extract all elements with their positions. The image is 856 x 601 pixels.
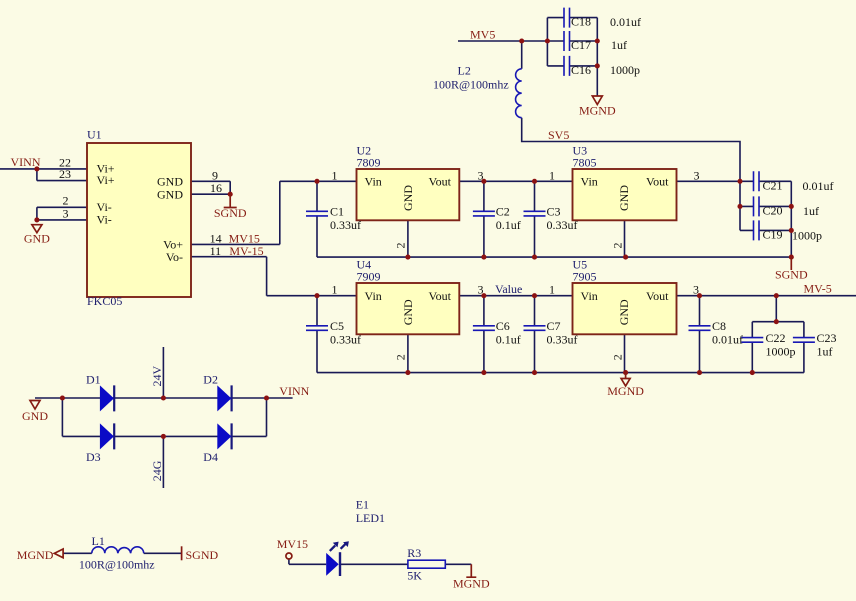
- svg-text:GND: GND: [401, 299, 415, 325]
- svg-text:C8: C8: [712, 319, 726, 333]
- svg-text:VINN: VINN: [279, 384, 309, 398]
- svg-text:D2: D2: [203, 373, 218, 387]
- svg-text:0.01uf: 0.01uf: [712, 332, 743, 346]
- svg-text:GND: GND: [157, 187, 183, 201]
- svg-text:LED1: LED1: [356, 511, 385, 525]
- svg-text:Vout: Vout: [646, 289, 669, 303]
- svg-text:23: 23: [59, 167, 71, 181]
- svg-text:24V: 24V: [150, 366, 164, 387]
- svg-text:16: 16: [210, 181, 222, 195]
- svg-text:C16: C16: [571, 63, 591, 77]
- svg-text:14: 14: [210, 231, 222, 245]
- svg-text:3: 3: [693, 283, 699, 297]
- svg-text:7909: 7909: [357, 270, 381, 284]
- svg-text:0.33uf: 0.33uf: [330, 218, 361, 232]
- svg-text:SGND: SGND: [186, 548, 219, 562]
- svg-text:3: 3: [478, 283, 484, 297]
- svg-text:D3: D3: [86, 450, 101, 464]
- svg-text:MGND: MGND: [607, 384, 644, 398]
- svg-text:1000p: 1000p: [610, 63, 640, 77]
- svg-text:9: 9: [212, 168, 218, 182]
- svg-text:3: 3: [478, 168, 484, 182]
- svg-text:100R@100mhz: 100R@100mhz: [79, 558, 155, 572]
- svg-text:C7: C7: [547, 319, 561, 333]
- svg-text:D1: D1: [86, 373, 101, 387]
- svg-text:7805: 7805: [573, 156, 597, 170]
- svg-text:0.01uf: 0.01uf: [803, 179, 834, 193]
- svg-text:0.33uf: 0.33uf: [547, 218, 578, 232]
- svg-text:7809: 7809: [357, 156, 381, 170]
- svg-text:C17: C17: [571, 38, 591, 52]
- svg-text:1: 1: [332, 283, 338, 297]
- svg-text:MV15: MV15: [277, 537, 308, 551]
- svg-text:C5: C5: [330, 319, 344, 333]
- svg-text:24G: 24G: [150, 460, 164, 481]
- svg-text:SGND: SGND: [775, 268, 808, 282]
- svg-text:100R@100mhz: 100R@100mhz: [433, 78, 509, 92]
- svg-text:D4: D4: [203, 450, 218, 464]
- svg-text:MV5: MV5: [470, 28, 495, 42]
- svg-text:1uf: 1uf: [803, 204, 819, 218]
- svg-text:0.1uf: 0.1uf: [496, 218, 521, 232]
- svg-text:5K: 5K: [407, 569, 422, 583]
- svg-text:C2: C2: [496, 204, 510, 218]
- svg-text:R3: R3: [407, 546, 421, 560]
- svg-text:Vi-: Vi-: [97, 213, 112, 227]
- svg-text:2: 2: [610, 243, 624, 249]
- svg-text:MV15: MV15: [229, 231, 260, 245]
- svg-text:C22: C22: [766, 331, 786, 345]
- svg-text:E1: E1: [356, 498, 369, 512]
- svg-text:2: 2: [394, 354, 408, 360]
- svg-text:0.33uf: 0.33uf: [330, 332, 361, 346]
- svg-text:Vout: Vout: [429, 175, 452, 189]
- svg-text:1uf: 1uf: [611, 38, 627, 52]
- svg-text:C18: C18: [571, 15, 591, 29]
- svg-text:Vout: Vout: [429, 289, 452, 303]
- svg-text:3: 3: [694, 168, 700, 182]
- svg-text:1: 1: [549, 168, 555, 182]
- svg-text:C23: C23: [817, 331, 837, 345]
- svg-text:GND: GND: [617, 299, 631, 325]
- svg-text:SGND: SGND: [214, 206, 247, 220]
- svg-text:C21: C21: [763, 179, 783, 193]
- svg-text:FKC05: FKC05: [87, 294, 122, 308]
- svg-text:11: 11: [210, 244, 222, 258]
- svg-text:GND: GND: [157, 175, 183, 189]
- svg-text:Value: Value: [495, 282, 522, 296]
- svg-text:L1: L1: [92, 534, 105, 548]
- svg-text:VINN: VINN: [11, 155, 41, 169]
- svg-text:MV-15: MV-15: [229, 244, 263, 258]
- svg-text:GND: GND: [22, 409, 48, 423]
- svg-text:Vin: Vin: [581, 175, 598, 189]
- svg-text:C6: C6: [496, 319, 510, 333]
- svg-text:1000p: 1000p: [792, 229, 822, 243]
- svg-text:1: 1: [549, 283, 555, 297]
- svg-text:C20: C20: [763, 204, 783, 218]
- svg-text:2: 2: [394, 243, 408, 249]
- svg-text:C19: C19: [763, 228, 783, 242]
- svg-text:MGND: MGND: [17, 548, 54, 562]
- svg-text:C1: C1: [330, 204, 344, 218]
- svg-text:1: 1: [332, 168, 338, 182]
- svg-text:1000p: 1000p: [766, 344, 796, 358]
- svg-text:0.33uf: 0.33uf: [547, 332, 578, 346]
- svg-text:Vi+: Vi+: [97, 173, 115, 187]
- svg-text:GND: GND: [24, 232, 50, 246]
- svg-text:C3: C3: [547, 204, 561, 218]
- svg-text:2: 2: [610, 354, 624, 360]
- svg-text:Vin: Vin: [365, 175, 382, 189]
- svg-text:U1: U1: [87, 128, 102, 142]
- svg-text:GND: GND: [617, 185, 631, 211]
- svg-text:Vout: Vout: [646, 175, 669, 189]
- svg-text:SV5: SV5: [548, 128, 569, 142]
- svg-text:MV-5: MV-5: [804, 282, 832, 296]
- svg-text:0.1uf: 0.1uf: [496, 332, 521, 346]
- svg-text:Vin: Vin: [581, 289, 598, 303]
- svg-text:7905: 7905: [573, 270, 597, 284]
- svg-text:Vo-: Vo-: [166, 250, 183, 264]
- svg-text:3: 3: [63, 206, 69, 220]
- svg-text:MGND: MGND: [453, 576, 490, 590]
- svg-text:Vin: Vin: [365, 289, 382, 303]
- svg-text:0.01uf: 0.01uf: [610, 15, 641, 29]
- svg-text:MGND: MGND: [579, 104, 616, 118]
- svg-text:GND: GND: [401, 185, 415, 211]
- svg-text:1uf: 1uf: [817, 344, 833, 358]
- svg-text:L2: L2: [458, 64, 471, 78]
